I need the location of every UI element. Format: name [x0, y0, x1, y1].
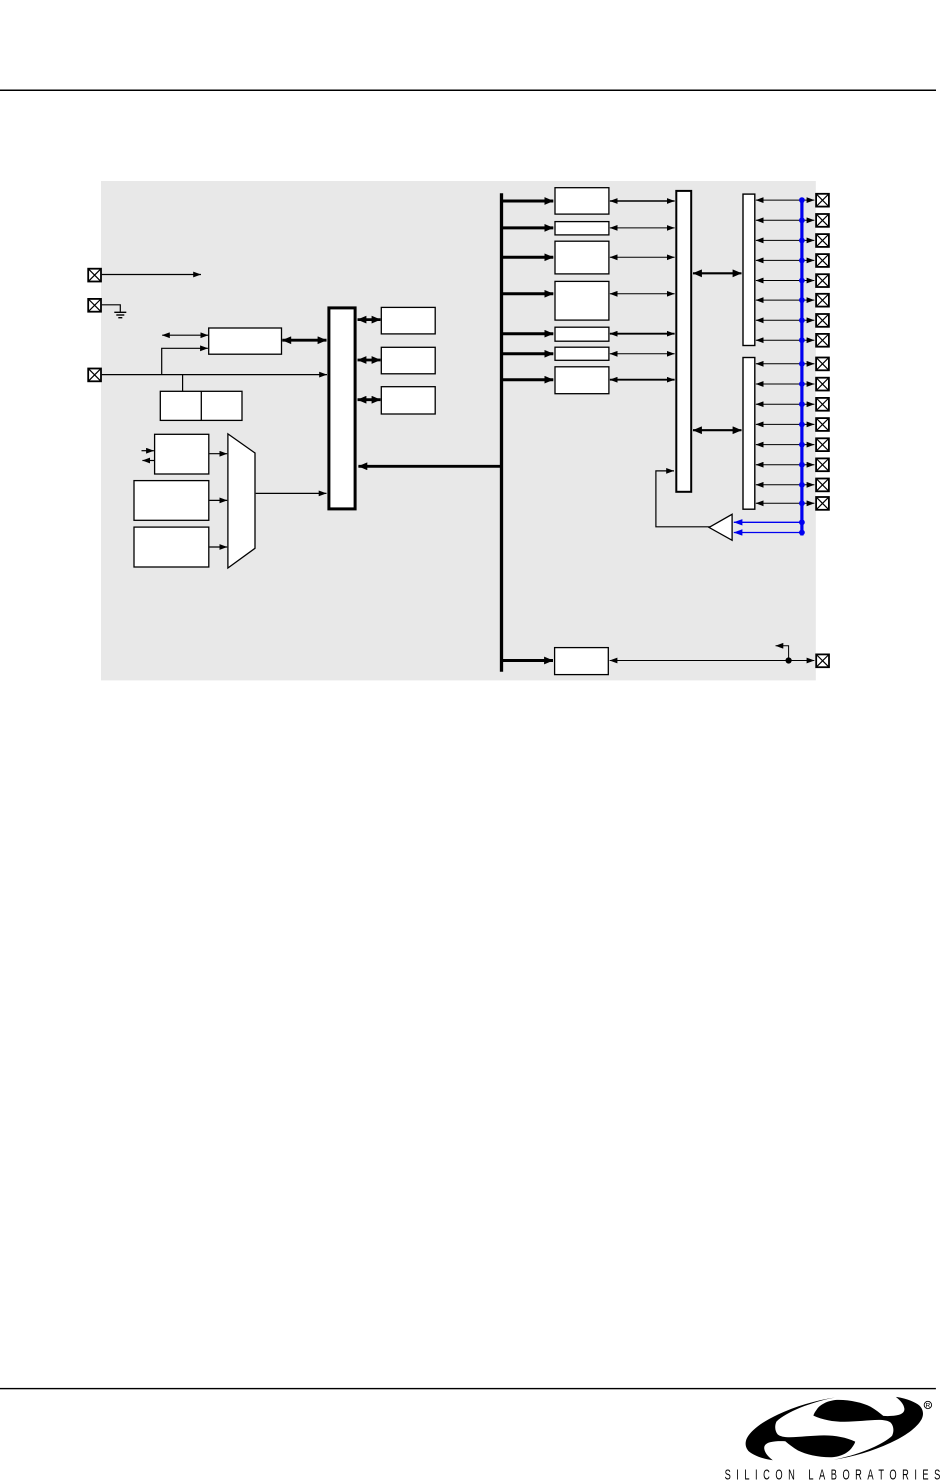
wire wdt-mux: [209, 546, 227, 548]
pin row 6: [756, 294, 829, 307]
pin XTAL: [816, 654, 829, 667]
internal osc box: [134, 481, 209, 521]
wire RST: [102, 374, 327, 376]
wire GND: [102, 305, 121, 312]
pin row 16: [756, 497, 829, 510]
logo registered mark: [924, 1401, 931, 1409]
logo silicon labs swirl: [746, 1397, 923, 1460]
pin row 7: [756, 314, 829, 327]
clock mux: [228, 434, 255, 568]
SFR bus: [500, 193, 503, 672]
wire P4-crossbar: [610, 293, 675, 295]
wire intosc-mux: [209, 499, 227, 501]
wire debug to core: [282, 339, 326, 342]
pin row 13: [756, 438, 829, 451]
wire debug pins double arrow: [162, 334, 208, 336]
junction dot: [786, 657, 792, 663]
wire debug to RST: [162, 348, 208, 374]
wire XTAL2: [142, 460, 154, 462]
oscillator box: [155, 434, 209, 474]
wire osc-mux: [209, 453, 227, 455]
wire comparator input CP0+: [734, 519, 805, 525]
logo swoosh lower: [813, 1397, 923, 1460]
wdt box: [134, 527, 209, 567]
pin RST: [88, 369, 101, 382]
debug HW box: [209, 328, 282, 354]
wire comparator input CP0-: [734, 530, 805, 536]
pin row 3: [756, 234, 829, 247]
wire core-flash: [358, 318, 381, 321]
svg-text:R: R: [926, 1403, 931, 1410]
pin row 2: [756, 214, 829, 227]
wire bus-P4: [502, 292, 553, 295]
wire xtal junction to pin: [789, 660, 815, 662]
header rule: [0, 90, 936, 92]
peripheral box P6: [555, 347, 609, 360]
wire comparator feedback: [656, 471, 710, 527]
wire mux-core: [256, 492, 327, 494]
pin row 14: [756, 458, 829, 471]
blue port bus: [800, 200, 803, 535]
pin row 10: [756, 378, 829, 391]
pin GND: [88, 299, 101, 312]
port latch bar P0: [743, 194, 755, 345]
wire bus-P1: [502, 200, 553, 203]
pin row 15: [756, 479, 829, 492]
pin VDD: [88, 269, 101, 282]
port latch bar P1: [743, 358, 755, 510]
wire bus-P2: [502, 226, 553, 229]
peripheral box P5: [555, 327, 609, 341]
peripheral box P7: [555, 367, 609, 394]
wire XTAL1: [142, 450, 154, 452]
pin row 1: [756, 194, 829, 207]
pin row 9: [756, 358, 829, 371]
wire P5-crossbar: [610, 333, 675, 335]
wire core-SFR: [358, 398, 381, 401]
wire bus-P6: [502, 352, 553, 355]
wire core-RAM: [358, 359, 381, 362]
ground: [114, 312, 126, 317]
pin row 11: [756, 398, 829, 411]
diagram background: [101, 181, 816, 680]
wire xtal pin to box: [610, 660, 789, 662]
wire crossbar-P0: [693, 272, 742, 274]
wire VDD: [102, 274, 201, 276]
pin row 12: [756, 418, 829, 431]
wire RST to POR: [182, 375, 184, 392]
peripheral box P4: [555, 281, 609, 320]
POR box: [160, 391, 242, 420]
wire P3-crossbar: [610, 256, 675, 258]
footer rule: [0, 1388, 936, 1389]
peripheral box P2: [555, 222, 609, 235]
peripheral box P1: [555, 188, 609, 214]
crossbar decoder bar: [676, 191, 691, 492]
wire P6-crossbar: [610, 353, 675, 355]
core CIP-51 block: [329, 308, 355, 509]
wire P2-crossbar: [610, 227, 675, 229]
flash box: [381, 307, 435, 334]
pin row 8: [756, 334, 829, 347]
wire bus-P7: [502, 378, 553, 381]
comparator: [709, 514, 732, 540]
SFR box: [381, 387, 435, 414]
wire crossbar-P1: [693, 429, 742, 431]
wire bus-P3: [502, 256, 553, 259]
POR divider: [200, 391, 202, 420]
peripheral box P3: [555, 241, 609, 274]
wire bus-core: [358, 465, 501, 468]
wire P1-crossbar: [610, 200, 675, 202]
svg-text:SILICON LABORATORIES: SILICON LABORATORIES: [725, 1466, 941, 1481]
wire P7-crossbar: [610, 379, 675, 381]
RAM box: [381, 347, 435, 374]
pin row 4: [756, 254, 829, 267]
pin row 5: [756, 274, 829, 287]
wire bus-P5: [502, 332, 553, 335]
wire bus-xtalbox: [502, 659, 553, 662]
logo swoosh upper: [746, 1398, 856, 1461]
wire xtal stub: [776, 646, 789, 661]
xtal box: [555, 648, 609, 675]
